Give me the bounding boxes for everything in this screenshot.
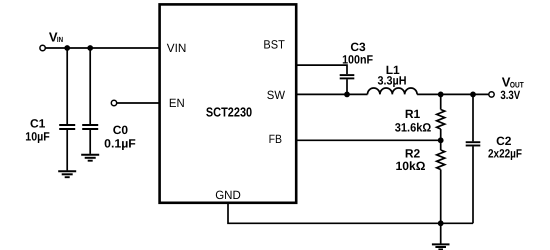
svg-text:31.6kΩ: 31.6kΩ: [395, 120, 432, 134]
junction dot C3/SW: [344, 92, 350, 98]
junction dot C0: [87, 45, 93, 51]
wire SW pin to inductor: [296, 93, 368, 95]
svg-text:0.1µF: 0.1µF: [104, 137, 136, 151]
wire R2 lower lead: [440, 170, 442, 224]
inductor L1: [368, 88, 418, 94]
node VIN terminal (open circle): [40, 45, 45, 50]
wire R2 upper lead: [440, 140, 442, 150]
wire R1 upper lead: [440, 94, 442, 109]
wire VIN terminal to VIN pin: [45, 47, 160, 49]
svg-text:10kΩ: 10kΩ: [396, 159, 426, 173]
svg-text:BST: BST: [263, 38, 285, 52]
wire EN terminal to EN pin: [117, 102, 160, 104]
svg-text:IN: IN: [57, 35, 63, 44]
resistor R2: [437, 150, 445, 170]
node EN terminal (open circle): [111, 100, 116, 105]
svg-text:FB: FB: [269, 132, 282, 146]
svg-text:R1: R1: [405, 107, 421, 121]
ground below C0: [81, 155, 99, 161]
capacitor C1: [59, 125, 75, 129]
junction dot R1: [438, 92, 444, 98]
svg-text:EN: EN: [169, 96, 185, 110]
wire inductor to VOUT terminal: [417, 93, 489, 95]
junction dot C2: [470, 92, 476, 98]
svg-text:SW: SW: [267, 88, 286, 102]
svg-text:SCT2230: SCT2230: [206, 105, 252, 120]
op-amp U1 SCT2230 IC body: [160, 4, 297, 202]
capacitor C0: [82, 125, 98, 129]
svg-text:3.3µH: 3.3µH: [378, 74, 407, 88]
wire C3 lower lead to SW rail: [346, 79, 348, 94]
node VOUT terminal (open circle): [489, 92, 494, 97]
ground symbol bottom: [432, 244, 450, 249]
svg-text:GND: GND: [215, 188, 241, 202]
wire C1 lower lead: [66, 130, 68, 171]
wire C0 lower lead: [89, 130, 91, 154]
svg-text:C1: C1: [30, 117, 46, 131]
junction dot C1: [64, 45, 70, 51]
ground below C1: [58, 171, 76, 177]
wire FB pin to divider: [296, 139, 441, 141]
wire R1 lower lead: [440, 129, 442, 140]
capacitor C3: [340, 75, 355, 78]
wire C2 lower lead: [472, 146, 474, 223]
junction dot FB: [438, 137, 444, 143]
svg-text:10µF: 10µF: [25, 130, 49, 144]
wire C0 upper lead: [89, 48, 91, 124]
wire ground stem: [440, 223, 442, 243]
wire BST pin to C3: [296, 65, 347, 74]
svg-text:100nF: 100nF: [342, 53, 373, 67]
capacitor C2: [466, 142, 481, 145]
wire C1 upper lead: [66, 48, 68, 124]
wire C2 upper lead: [472, 94, 474, 141]
svg-text:C0: C0: [113, 123, 129, 137]
junction dot ground rail: [438, 220, 444, 226]
resistor R1: [437, 110, 445, 130]
svg-text:VIN: VIN: [167, 41, 187, 55]
wire GND pin to ground rail: [228, 203, 473, 223]
svg-text:2x22µF: 2x22µF: [488, 146, 522, 160]
svg-text:3.3V: 3.3V: [500, 88, 520, 102]
